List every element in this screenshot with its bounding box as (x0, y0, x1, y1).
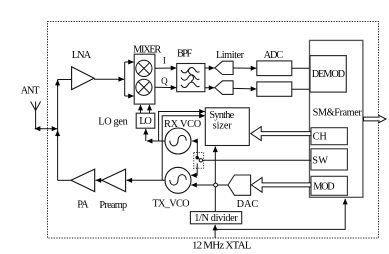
svg-text:12 MHz XTAL: 12 MHz XTAL (192, 239, 252, 251)
svg-text:sizer: sizer (213, 121, 233, 132)
svg-text:Q: Q (161, 76, 168, 86)
svg-text:1/N divider: 1/N divider (194, 213, 238, 224)
svg-text:RX VCO: RX VCO (164, 119, 202, 130)
svg-text:DAC: DAC (237, 199, 259, 210)
svg-text:LNA: LNA (72, 50, 92, 61)
svg-text:LO: LO (139, 116, 152, 127)
svg-text:CH: CH (313, 131, 328, 142)
svg-text:Limiter: Limiter (216, 50, 245, 61)
svg-text:MOD: MOD (313, 181, 335, 192)
svg-text:MIXER: MIXER (133, 44, 161, 55)
svg-text:SM&Framer: SM&Framer (313, 107, 363, 118)
svg-text:TX_VCO: TX_VCO (152, 199, 190, 210)
svg-text:LO gen: LO gen (98, 117, 128, 128)
svg-text:BPF: BPF (177, 48, 192, 59)
svg-text:PA: PA (77, 200, 89, 211)
svg-text:Preamp: Preamp (99, 200, 127, 211)
svg-text:Synthe: Synthe (209, 110, 234, 121)
svg-text:DEMOD: DEMOD (312, 69, 346, 80)
svg-text:ADC: ADC (264, 50, 284, 61)
svg-text:SW: SW (312, 155, 328, 166)
svg-text:I: I (163, 56, 166, 66)
svg-text:ANT: ANT (21, 86, 41, 97)
